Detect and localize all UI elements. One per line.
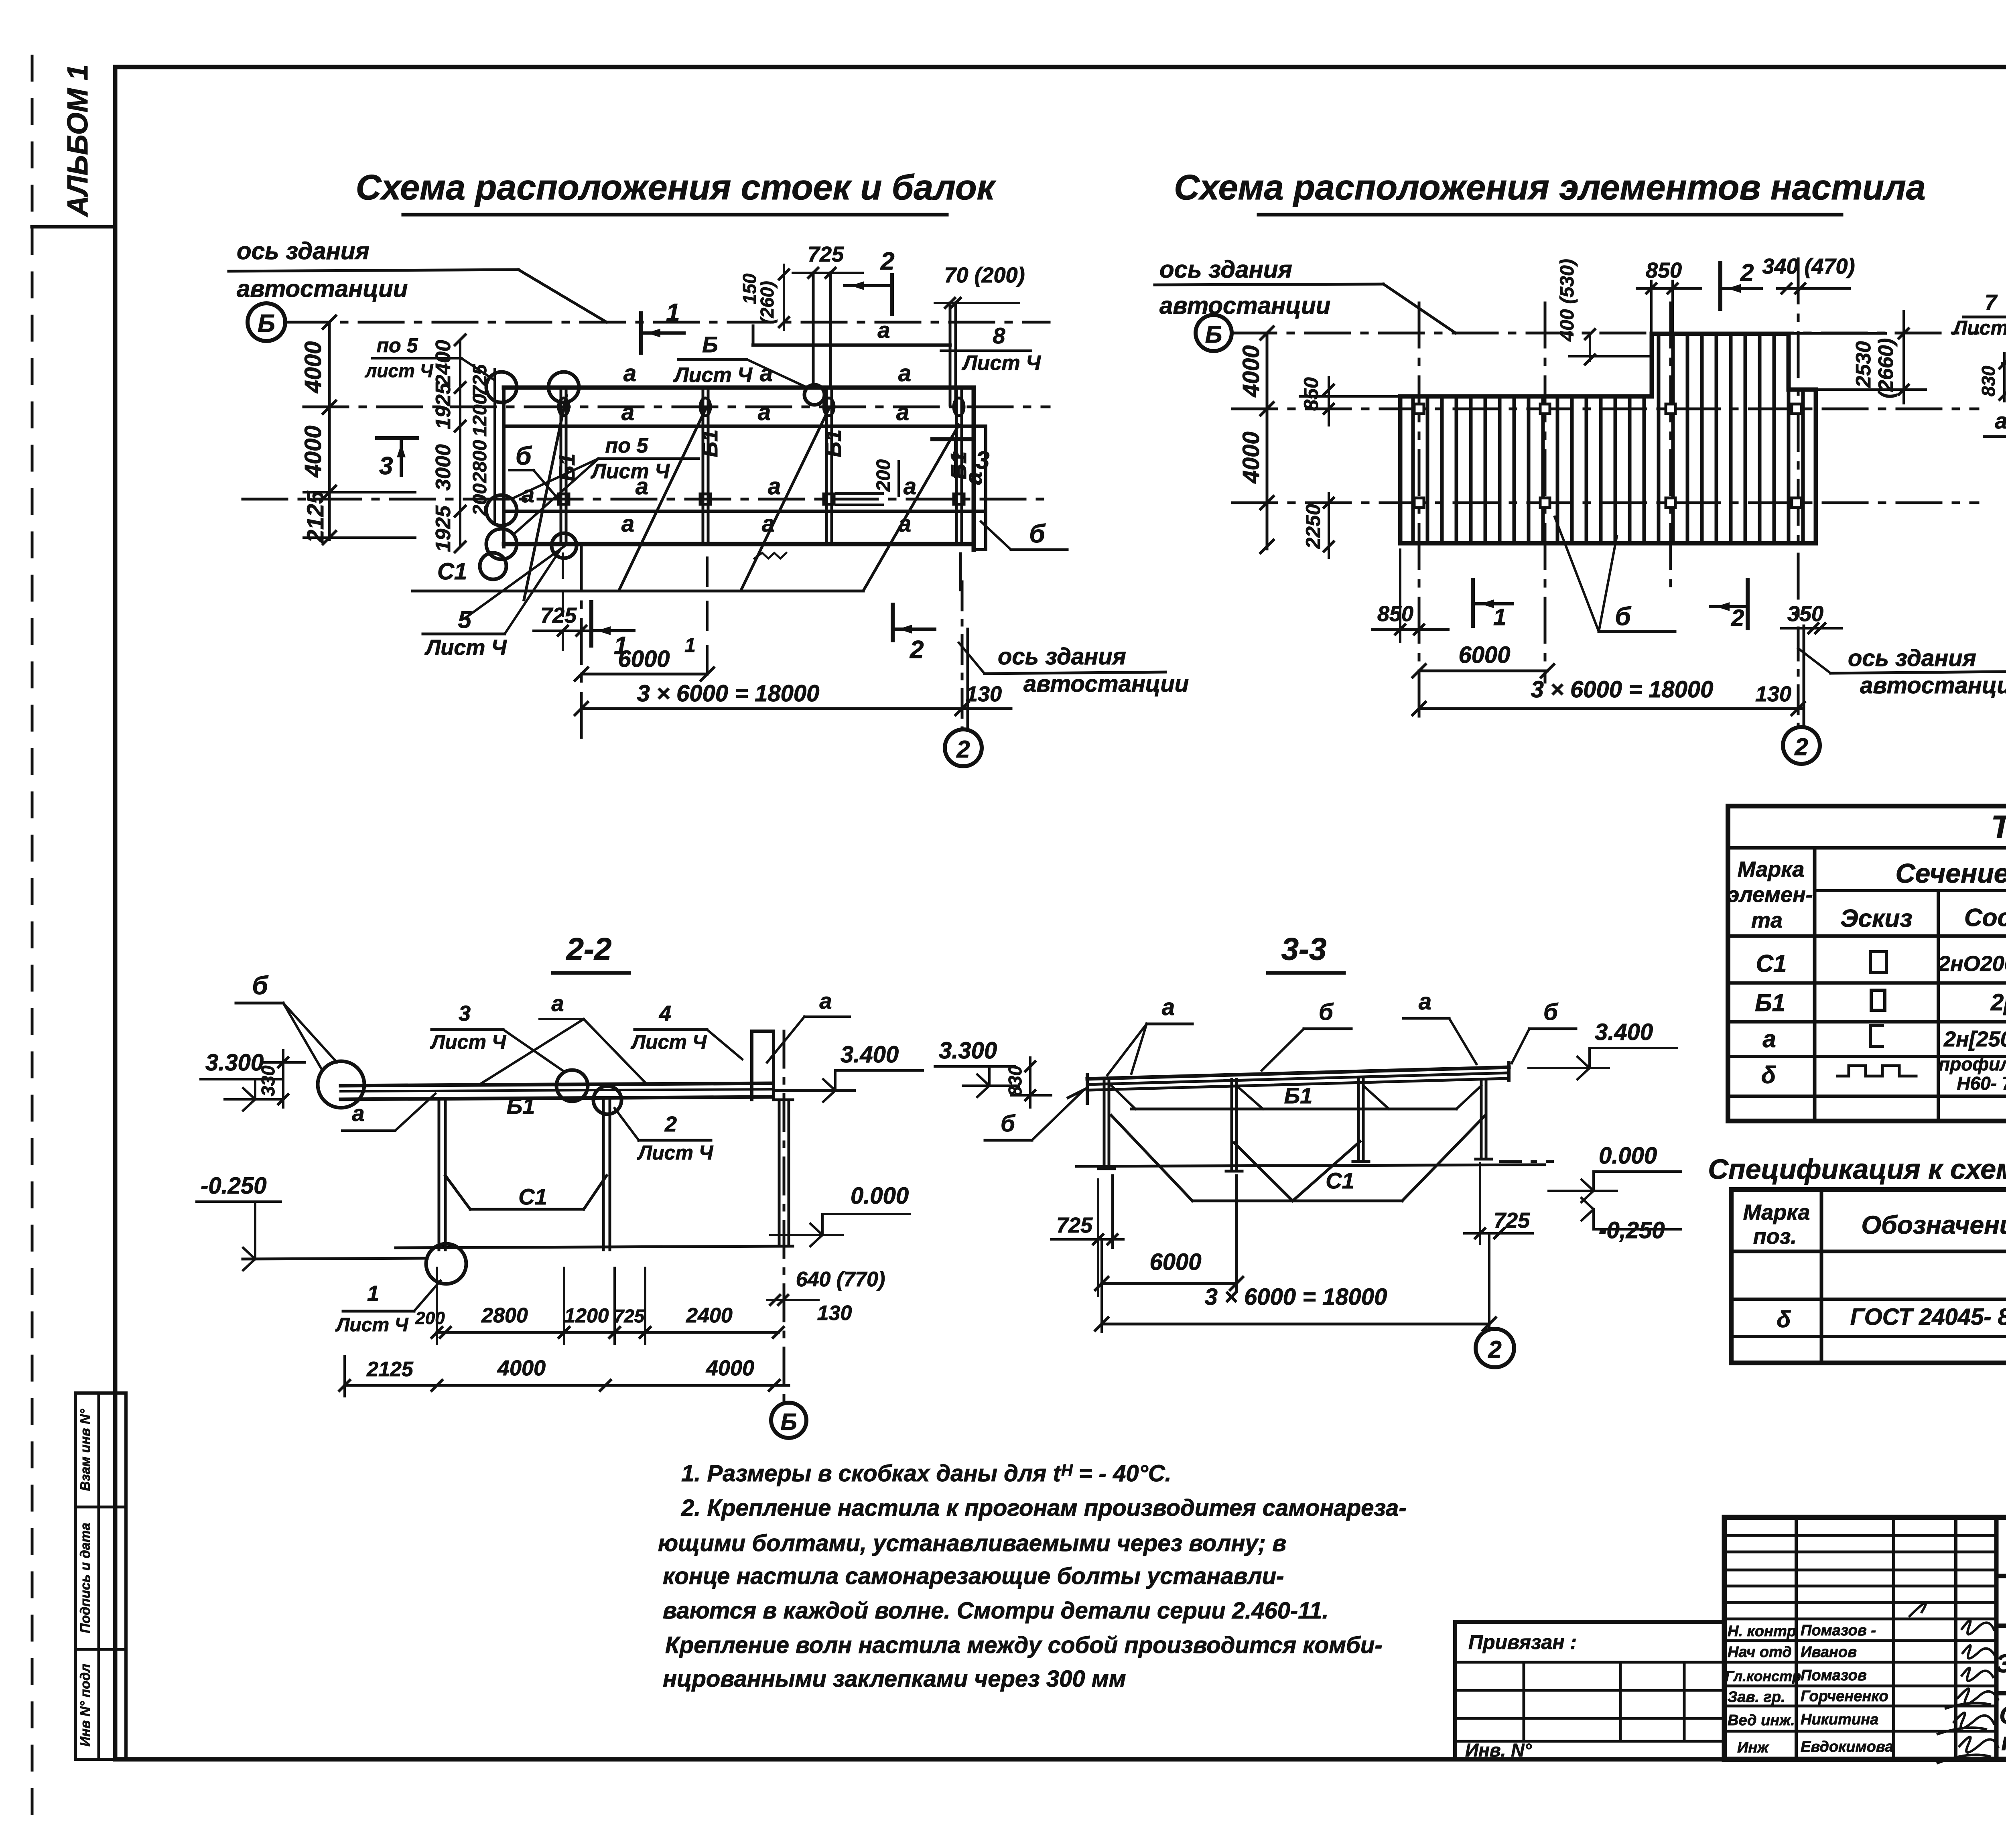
vertical axes of deck bbox=[1418, 303, 1421, 718]
svg-text:4000: 4000 bbox=[706, 1356, 754, 1380]
svg-text:а: а bbox=[896, 399, 909, 425]
svg-text:1200: 1200 bbox=[469, 394, 491, 437]
svg-text:Б: Б bbox=[1205, 321, 1222, 348]
svg-text:1: 1 bbox=[666, 299, 680, 327]
svg-text:Б1: Б1 bbox=[1755, 989, 1785, 1016]
table of elements: outer bbox=[1728, 806, 2006, 1121]
title block outer bbox=[1724, 1517, 2006, 1759]
svg-text:та: та bbox=[1751, 908, 1783, 932]
svg-text:Лист Ч: Лист Ч bbox=[961, 351, 1041, 375]
svg-text:а: а bbox=[1162, 994, 1175, 1020]
svg-text:конструкций навеса: конструкций навеса bbox=[2001, 1728, 2006, 1756]
svg-text:3000: 3000 bbox=[432, 444, 455, 491]
svg-text:725: 725 bbox=[1494, 1208, 1530, 1233]
svg-text:поз.: поз. bbox=[1753, 1225, 1797, 1249]
svg-text:а: а bbox=[1419, 989, 1431, 1015]
svg-text:4000: 4000 bbox=[300, 341, 326, 393]
svg-text:Б1: Б1 bbox=[697, 429, 722, 457]
svg-text:725: 725 bbox=[1056, 1213, 1093, 1237]
svg-text:Таблица элементов: Таблица элементов bbox=[1991, 809, 2006, 845]
svg-text:Иванов: Иванов bbox=[1801, 1644, 1857, 1661]
plan axis row 2 bbox=[243, 498, 1049, 501]
section mark 2 top (drawing2) bbox=[1718, 263, 1722, 309]
svg-text:1. Размеры в скобках даны: 1. Размеры в скобках даны для tᴴ = - 40°… bbox=[681, 1460, 1172, 1487]
table of elements: title row bbox=[1728, 846, 2006, 850]
inner dim chain (2400/1925/3000/1925) bbox=[459, 340, 461, 547]
verticals from 725 dim bbox=[812, 273, 815, 383]
svg-text:б: б bbox=[516, 441, 532, 470]
left node circle (2-2) bbox=[318, 1061, 364, 1108]
svg-text:3: 3 bbox=[459, 1001, 471, 1026]
svg-text:-0.250: -0.250 bbox=[201, 1173, 266, 1199]
spec table grid bbox=[1820, 1190, 1823, 1363]
svg-text:2800: 2800 bbox=[481, 1304, 528, 1327]
section mark 2 (bottom) bbox=[891, 605, 895, 640]
axis circle 2 (drawing1) bbox=[945, 729, 982, 766]
svg-text:ющими болтами, устанавлив: ющими болтами, устанавливаемыми через во… bbox=[658, 1530, 1286, 1556]
svg-text:2: 2 bbox=[1731, 605, 1744, 631]
svg-text:2800: 2800 bbox=[469, 440, 491, 483]
svg-text:2125: 2125 bbox=[366, 1358, 414, 1381]
axis 1 vertical extension bbox=[580, 546, 583, 746]
svg-text:Н. контр: Н. контр bbox=[1728, 1623, 1796, 1640]
left dim chain drawing2 (4000/4000) bbox=[1266, 333, 1269, 549]
plan bottom chord bbox=[504, 542, 974, 546]
section mark 3 (right) bbox=[932, 437, 973, 441]
beam Б1 (2-2) bbox=[341, 1083, 772, 1086]
svg-text:Б1: Б1 bbox=[821, 429, 846, 457]
left bottom attribute strip bbox=[75, 1393, 126, 1759]
middle row: building name + stage bbox=[1996, 1691, 2006, 1696]
svg-text:δ: δ bbox=[1761, 1062, 1776, 1088]
axis line Б (drawing 1) bbox=[285, 321, 1049, 324]
svg-text:Горчененкo: Горчененкo bbox=[1801, 1688, 1888, 1705]
plan axis row 1 bbox=[304, 406, 1049, 408]
left binding dashed line bbox=[31, 56, 34, 1824]
svg-text:Лист Ч: Лист Ч bbox=[430, 1031, 507, 1053]
svg-text:а: а bbox=[819, 988, 832, 1013]
svg-text:130: 130 bbox=[966, 682, 1002, 706]
svg-text:130: 130 bbox=[817, 1302, 852, 1325]
svg-text:б: б bbox=[1319, 999, 1334, 1025]
svg-text:Взам инв N°: Взам инв N° bbox=[78, 1409, 93, 1491]
svg-text:1: 1 bbox=[684, 634, 696, 656]
svg-text:С1: С1 bbox=[518, 1184, 547, 1209]
svg-text:а: а bbox=[760, 360, 773, 386]
svg-text:Спецификация к схеме распо: Спецификация к схеме расположения элемен… bbox=[1708, 1153, 2006, 1185]
svg-text:ось здания: ось здания bbox=[237, 238, 370, 264]
svg-text:1200: 1200 bbox=[564, 1304, 609, 1327]
svg-text:а: а bbox=[623, 360, 636, 386]
svg-text:Н60- 788- 0 9: Н60- 788- 0 9 bbox=[1957, 1073, 2006, 1094]
svg-text:0.000: 0.000 bbox=[1599, 1143, 1657, 1169]
svg-text:по 5: по 5 bbox=[605, 434, 649, 457]
section mark 2 bottom (drawing2) bbox=[1746, 580, 1750, 628]
base circle (2-2) bbox=[426, 1244, 466, 1284]
svg-text:Лист Ч: Лист Ч bbox=[424, 636, 507, 660]
svg-text:б: б bbox=[252, 971, 269, 1000]
ground line (3-3) bbox=[1076, 1165, 1545, 1166]
inner chain 850/2250 bbox=[1328, 377, 1330, 425]
svg-text:1925: 1925 bbox=[432, 505, 455, 552]
svg-text:3 × 6000 = 18000: 3 × 6000 = 18000 bbox=[637, 680, 820, 707]
svg-text:4000: 4000 bbox=[1238, 431, 1264, 483]
dim row2 (2-2) bbox=[345, 1384, 789, 1387]
section mark 2 (top) bbox=[890, 275, 894, 314]
signatures squiggles bbox=[1910, 1603, 1994, 1634]
svg-text:Схема расположения стоек и: Схема расположения стоек и балок bbox=[356, 167, 997, 207]
plan top chord (purlin a) bbox=[504, 386, 974, 390]
svg-text:Б: Б bbox=[702, 332, 718, 357]
svg-text:4000: 4000 bbox=[1238, 345, 1264, 397]
svg-text:Лист Ч: Лист Ч bbox=[1952, 317, 2006, 339]
svg-text:340 (470): 340 (470) bbox=[1762, 254, 1855, 278]
svg-text:2530: 2530 bbox=[1852, 341, 1875, 388]
section mark 1 bottom (drawing2) bbox=[1471, 580, 1475, 626]
axis 4 vertical extension bbox=[959, 554, 962, 590]
inner dim chain 2 (725/1200/2800/200) bbox=[493, 369, 496, 522]
svg-text:Сечение: Сечение bbox=[1895, 858, 2006, 889]
dim 830 (1-1) bbox=[2002, 362, 2006, 365]
posts (3-3) bbox=[1103, 1079, 1106, 1169]
svg-text:3 × 6000 = 18000: 3 × 6000 = 18000 bbox=[1205, 1284, 1387, 1310]
svg-text:4000: 4000 bbox=[300, 425, 326, 477]
plan purlin line row 1 bbox=[504, 424, 986, 428]
C1 truss diagonals (3-3) bbox=[1111, 1115, 1192, 1201]
small break squiggle bbox=[754, 553, 786, 558]
svg-text:(260): (260) bbox=[757, 281, 778, 324]
svg-text:200: 200 bbox=[415, 1308, 445, 1328]
svg-text:330: 330 bbox=[258, 1065, 278, 1096]
node squares on axis row2 bbox=[558, 494, 569, 504]
axis circle 2 (drawing2) bbox=[1783, 727, 1820, 764]
node squares on deck axes bbox=[1414, 404, 1424, 414]
svg-text:2. Крепление настила к про: 2. Крепление настила к прогонам производ… bbox=[681, 1495, 1407, 1521]
svg-text:Лист Ч: Лист Ч bbox=[590, 460, 670, 483]
svg-text:Привязан :: Привязан : bbox=[1468, 1631, 1577, 1653]
svg-text:ось здания: ось здания bbox=[1159, 256, 1292, 283]
svg-text:нцрованными заклепками че: нцрованными заклепками через 300 мм bbox=[663, 1666, 1126, 1692]
svg-text:Инв. N°: Инв. N° bbox=[1465, 1740, 1532, 1761]
svg-text:4000: 4000 bbox=[497, 1356, 546, 1380]
svg-text:по 5: по 5 bbox=[377, 334, 418, 357]
wall axis (2-2) bbox=[783, 1031, 786, 1400]
svg-text:ось здания: ось здания bbox=[1848, 645, 1976, 671]
svg-text:640 (770): 640 (770) bbox=[796, 1268, 885, 1291]
section mark 3 (left) bbox=[377, 436, 417, 440]
roof left cap (3-3) bbox=[1086, 1074, 1089, 1103]
svg-text:а: а bbox=[621, 399, 634, 425]
svg-text:Эскиз: Эскиз bbox=[1840, 905, 1913, 932]
svg-text:830: 830 bbox=[1978, 366, 1999, 396]
wall axis to circle 2 (drawing1) bbox=[961, 582, 964, 729]
svg-text:ваются в каждой волне.: ваются в каждой волне. Смотри детали сер… bbox=[663, 1598, 1329, 1624]
svg-text:2: 2 bbox=[1488, 1336, 1501, 1363]
deck ribs (profiled sheeting) bbox=[1411, 396, 1415, 543]
spec table outer bbox=[1731, 1190, 2006, 1363]
svg-text:70 (200): 70 (200) bbox=[944, 263, 1025, 287]
small diagonals (3-3) bbox=[1109, 1083, 1135, 1109]
svg-text:Б1: Б1 bbox=[1284, 1083, 1313, 1108]
section mark 1 (bottom) bbox=[589, 602, 593, 646]
svg-text:а: а bbox=[898, 511, 911, 537]
label ось здания автостанции (drawing1 bottom) bbox=[959, 643, 985, 674]
svg-text:2: 2 bbox=[664, 1112, 677, 1136]
svg-text:850: 850 bbox=[1646, 258, 1682, 282]
svg-text:3.400: 3.400 bbox=[1595, 1019, 1653, 1045]
svg-text:6000: 6000 bbox=[1149, 1249, 1201, 1275]
svg-text:автостанции: автостанции bbox=[1159, 292, 1330, 319]
binding box (Привязан) bbox=[1455, 1622, 1724, 1759]
svg-text:1: 1 bbox=[367, 1281, 379, 1306]
svg-text:С1: С1 bbox=[1326, 1168, 1354, 1193]
svg-text:5: 5 bbox=[458, 606, 472, 633]
svg-text:а: а bbox=[621, 511, 634, 537]
svg-text:3.400: 3.400 bbox=[841, 1042, 899, 1068]
svg-text:725: 725 bbox=[540, 603, 577, 628]
svg-text:Лист Ч: Лист Ч bbox=[637, 1141, 714, 1164]
svg-text:Обозначения: Обозначения bbox=[1861, 1210, 2006, 1239]
deck outline bbox=[1400, 334, 1816, 543]
svg-text:автостанции: автостанции bbox=[1860, 672, 2006, 699]
svg-text:б: б bbox=[1615, 602, 1632, 631]
axis circle Б (drawing 2) bbox=[1196, 315, 1232, 351]
svg-text:3.300: 3.300 bbox=[939, 1038, 997, 1064]
svg-text:а: а bbox=[898, 360, 911, 386]
svg-text:Гл.констр: Гл.констр bbox=[1725, 1668, 1801, 1684]
svg-text:б: б bbox=[1543, 999, 1559, 1025]
svg-text:7: 7 bbox=[1985, 290, 1998, 315]
svg-text:а: а bbox=[551, 991, 564, 1016]
svg-text:2: 2 bbox=[910, 636, 924, 664]
columns (2-2) bbox=[438, 1099, 441, 1250]
svg-text:3-3: 3-3 bbox=[1281, 931, 1327, 967]
svg-text:а: а bbox=[904, 473, 916, 500]
svg-text:Помазов: Помазов bbox=[1801, 1667, 1867, 1684]
svg-text:Инв N° подл: Инв N° подл bbox=[78, 1664, 93, 1746]
svg-text:б: б bbox=[1029, 519, 1046, 548]
svg-text:Крепление волн настила ме: Крепление волн настила между собой произ… bbox=[665, 1632, 1383, 1658]
table of elements: grid bbox=[1813, 848, 1817, 1121]
svg-text:0.000: 0.000 bbox=[851, 1183, 909, 1209]
svg-text:850: 850 bbox=[1300, 377, 1322, 411]
svg-text:Схемы расположения: Схемы расположения bbox=[1999, 1702, 2006, 1729]
svg-text:автостанции: автостанции bbox=[237, 275, 408, 302]
roof right cap (3-3) bbox=[1507, 1062, 1511, 1080]
right parapet (2-2) bbox=[752, 1031, 774, 1100]
svg-text:850: 850 bbox=[1377, 602, 1413, 626]
dim row1 (2-2) bbox=[437, 1331, 778, 1334]
svg-text:лист Ч: лист Ч bbox=[365, 360, 434, 381]
svg-text:2: 2 bbox=[1740, 259, 1754, 286]
svg-text:Подпись и дата: Подпись и дата bbox=[78, 1523, 93, 1633]
svg-text:ГОСТ 24045- 86: ГОСТ 24045- 86 bbox=[1850, 1304, 2006, 1330]
svg-text:АЛЬБОМ 1: АЛЬБОМ 1 bbox=[62, 64, 94, 217]
svg-text:Состав: Состав bbox=[1964, 904, 2006, 932]
svg-text:Схема расположения элементов: Схема расположения элементов настила bbox=[1174, 167, 1925, 207]
svg-text:автостанции: автостанции bbox=[1023, 671, 1189, 697]
section mark 1 (top) bbox=[639, 313, 643, 353]
left margin tick line bbox=[32, 225, 115, 229]
svg-text:Лист Ч: Лист Ч bbox=[335, 1314, 409, 1336]
svg-text:2: 2 bbox=[1794, 733, 1808, 760]
svg-text:2[20: 2[20 bbox=[1990, 989, 2006, 1015]
axis circle 2 (3-3) bbox=[1476, 1329, 1514, 1367]
svg-text:2: 2 bbox=[880, 248, 894, 275]
svg-text:4: 4 bbox=[659, 1001, 671, 1026]
stamp grid verticals bbox=[1795, 1517, 1798, 1759]
axis circle Б (drawing 1) bbox=[248, 303, 285, 341]
svg-text:Нач отд: Нач отд bbox=[1728, 1644, 1792, 1661]
svg-text:С1: С1 bbox=[1756, 950, 1787, 977]
elevated deck outline in plan bbox=[752, 326, 755, 345]
plan left edge bbox=[502, 388, 506, 547]
label ось здания автостанции (drawing2 bottom) bbox=[1798, 648, 1831, 673]
svg-text:а: а bbox=[768, 473, 781, 500]
horizontal axes of deck bbox=[1232, 408, 1978, 410]
object name box bbox=[1996, 1624, 2006, 1628]
svg-text:3: 3 bbox=[379, 452, 393, 480]
axis line Б (drawing 2) bbox=[1232, 332, 1978, 335]
svg-text:Инж: Инж bbox=[1737, 1739, 1769, 1756]
svg-text:1: 1 bbox=[1493, 604, 1506, 630]
svg-text:Марка: Марка bbox=[1738, 857, 1805, 881]
svg-text:δ: δ bbox=[1777, 1306, 1791, 1332]
svg-text:8: 8 bbox=[993, 323, 1005, 348]
svg-text:ось здания: ось здания bbox=[998, 644, 1126, 670]
roof deck line (3-3) bbox=[1087, 1067, 1509, 1079]
svg-text:2250: 2250 bbox=[1302, 504, 1324, 549]
axis circle Б (2-2) bbox=[771, 1403, 806, 1438]
svg-text:Вед инж.: Вед инж. bbox=[1728, 1712, 1795, 1729]
svg-text:2: 2 bbox=[956, 736, 970, 763]
svg-text:Евдокимова: Евдокимова bbox=[1801, 1738, 1893, 1755]
ground line (2-2) bbox=[396, 1246, 793, 1248]
svg-text:725: 725 bbox=[808, 242, 844, 266]
svg-text:6000: 6000 bbox=[1458, 642, 1510, 668]
svg-text:элемен-: элемен- bbox=[1727, 883, 1813, 907]
svg-text:2н[250×125×6: 2н[250×125×6 bbox=[1943, 1027, 2006, 1051]
svg-text:а: а bbox=[877, 317, 890, 343]
svg-text:а: а bbox=[758, 399, 771, 425]
dim 830 (3-3) bbox=[1029, 1058, 1031, 1107]
svg-text:2400: 2400 bbox=[432, 340, 455, 387]
plan purlin line row 2 bbox=[504, 510, 986, 513]
svg-text:2-2: 2-2 bbox=[566, 931, 612, 967]
detail 200 mark at row2 bbox=[837, 492, 883, 495]
svg-text:3.300: 3.300 bbox=[205, 1050, 264, 1076]
doc number box bbox=[1996, 1574, 2006, 1578]
svg-text:Никитина: Никитина bbox=[1801, 1711, 1878, 1728]
svg-text:Помазов -: Помазов - bbox=[1801, 1622, 1876, 1639]
svg-text:130: 130 bbox=[1755, 682, 1791, 706]
svg-text:725: 725 bbox=[614, 1306, 645, 1326]
svg-text:Зав. гр.: Зав. гр. bbox=[1728, 1689, 1785, 1706]
svg-text:Здание автостанции: Здание автостанции bbox=[1996, 1649, 2006, 1678]
svg-text:3: 3 bbox=[976, 447, 989, 474]
svg-text:3 × 6000 = 18000: 3 × 6000 = 18000 bbox=[1531, 676, 1714, 703]
svg-text:профил. настил: профил. настил bbox=[1939, 1054, 2006, 1074]
svg-text:Лист Ч: Лист Ч bbox=[673, 364, 753, 387]
svg-text:а: а bbox=[1995, 408, 2006, 433]
svg-text:а: а bbox=[352, 1101, 364, 1126]
svg-text:б: б bbox=[1001, 1111, 1016, 1137]
svg-text:830: 830 bbox=[1005, 1065, 1025, 1096]
svg-text:Б: Б bbox=[258, 310, 275, 337]
svg-text:6000: 6000 bbox=[618, 646, 670, 672]
stamp grid rows (names) bbox=[1724, 1639, 1996, 1642]
svg-text:Лист Ч: Лист Ч bbox=[631, 1031, 707, 1053]
svg-text:Б: Б bbox=[780, 1409, 797, 1435]
wall axis to circle 2 (drawing2) bbox=[1797, 632, 1800, 727]
svg-text:Б1: Б1 bbox=[507, 1093, 535, 1119]
beams Б1 (double verticals) bbox=[560, 388, 562, 544]
svg-text:200: 200 bbox=[873, 459, 894, 492]
stamp grid rows (upper) bbox=[1724, 1534, 1996, 1537]
plan right edge double bbox=[972, 388, 976, 550]
svg-text:Марка: Марка bbox=[1743, 1200, 1810, 1225]
node ovals on axis row1 bbox=[558, 398, 569, 416]
svg-text:а: а bbox=[1762, 1026, 1776, 1052]
svg-text:конце настила самонарезаю: конце настила самонарезающие болты устан… bbox=[663, 1563, 1284, 1589]
svg-text:2400: 2400 bbox=[686, 1304, 733, 1327]
deck top edge extension left bbox=[1300, 395, 1400, 398]
svg-text:2нО200×160×8: 2нО200×160×8 bbox=[1938, 952, 2006, 976]
left dim chain (4000/4000/2125) bbox=[328, 322, 331, 540]
svg-text:С1: С1 bbox=[437, 558, 467, 585]
svg-text:400 (530): 400 (530) bbox=[1557, 259, 1578, 341]
node circles on plan bbox=[486, 372, 517, 402]
truss top chord (3-3) bbox=[1131, 1108, 1456, 1111]
dim 330 (2-2) bbox=[282, 1050, 284, 1107]
purlin node circles (2-2) bbox=[556, 1070, 588, 1101]
